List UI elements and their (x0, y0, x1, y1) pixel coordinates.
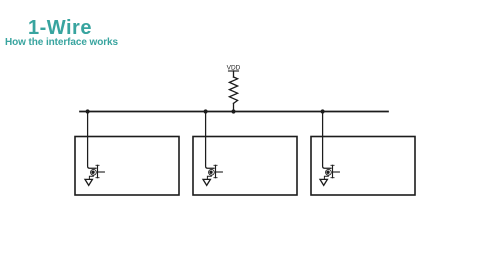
wire: Q1 source to ground (89, 175, 93, 179)
wire: resistor to bus (233, 103, 235, 111)
ground arrow (device 3) (320, 179, 327, 185)
wire: bus drop to transistor Q1 drain (88, 112, 96, 169)
node: device 3 bus junction (321, 109, 325, 113)
transistor Q1 (open-drain MOSFET) (91, 165, 105, 177)
wire: 1-Wire bus (80, 111, 388, 113)
subtitle "How the interface works" (5, 37, 118, 48)
ground arrow (device 1) (85, 179, 92, 185)
wire: Q3 source to ground (324, 175, 328, 179)
device 1 box (75, 137, 179, 196)
transistor Q2 (open-drain MOSFET) (209, 165, 223, 177)
node: device 1 bus junction (86, 109, 90, 113)
node: device 2 bus junction (204, 109, 208, 113)
device 3 box (311, 137, 415, 196)
resistor R1 (pull-up) (229, 77, 237, 103)
wire: bus drop to transistor Q2 drain (206, 112, 214, 169)
device 2 box (193, 137, 297, 196)
VDD power rail label (227, 65, 241, 72)
transistor Q3 (open-drain MOSFET) (326, 165, 340, 177)
ground arrow (device 2) (203, 179, 210, 185)
slide title "1-Wire" (28, 17, 92, 40)
wire: VDD to resistor (233, 71, 235, 77)
wire: Q2 source to ground (207, 175, 211, 179)
node: resistor-bus junction (231, 109, 235, 113)
wire: bus drop to transistor Q3 drain (323, 112, 331, 169)
